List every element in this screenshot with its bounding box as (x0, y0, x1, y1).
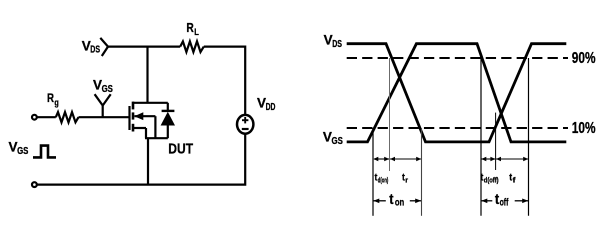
resistor Rg (56, 112, 79, 122)
arrow t_off right (515, 199, 529, 204)
10% dashed level line (347, 127, 568, 129)
transistor DUT (n-MOSFET) (130, 102, 168, 185)
probe VGS (Y symbol) (95, 94, 111, 117)
label VDD (257, 95, 275, 112)
label DUT (168, 140, 193, 157)
label VGS pulse (9, 139, 29, 156)
node marker VDS 10% rise (495, 113, 497, 170)
pulse symbol VGS input (33, 146, 56, 158)
node marker VDS 90% rise (528, 58, 530, 216)
svg-text:R: R (186, 21, 193, 35)
label VGS waveform (323, 129, 343, 146)
wire input to Rg (37, 116, 56, 118)
waveform VDS trace (347, 44, 567, 142)
svg-text:DS: DS (90, 45, 100, 56)
svg-text:90%: 90% (572, 50, 596, 67)
label VDS waveform (324, 32, 343, 49)
probe VDS (sideways Y symbol) (100, 38, 108, 56)
label t_off (495, 191, 509, 209)
waveform VGS trace (347, 44, 567, 142)
arrow t_on left (373, 199, 386, 204)
svg-text:DS: DS (332, 39, 342, 50)
label t_on (389, 191, 404, 209)
node marker VGS 90% fall (480, 58, 482, 216)
wire drain vertical from top node (146, 47, 148, 104)
label tf (509, 173, 516, 185)
arrow t_off left (481, 199, 492, 204)
terminal input (open circle) (32, 115, 37, 120)
label VGS probe (93, 78, 113, 95)
svg-text:r: r (405, 178, 408, 185)
node marker t_on start (VGS 10% rise) (372, 128, 374, 216)
svg-text:DD: DD (266, 102, 276, 113)
label tr (402, 173, 408, 185)
svg-text:d(on): d(on) (378, 178, 389, 185)
svg-text:on: on (395, 196, 404, 208)
wire top: probe to RL (108, 45, 180, 47)
wire RL to VDD corner (204, 47, 245, 116)
svg-text:DUT: DUT (168, 140, 193, 157)
body diode of DUT (161, 103, 175, 138)
node marker VDS 10% fall (421, 128, 423, 216)
label VDS probe (82, 38, 101, 55)
arrow t_on right (410, 199, 421, 204)
svg-text:off: off (500, 196, 509, 208)
node marker VDS 90% fall (389, 58, 391, 171)
arrow td(on) (373, 157, 389, 161)
svg-text:g: g (54, 97, 58, 107)
source VDD (circle with plus minus) (237, 115, 253, 134)
terminal bottom rail (open circle) (32, 182, 37, 187)
svg-text:d(off): d(off) (484, 178, 499, 185)
resistor RL (180, 41, 204, 52)
label td(off) (481, 173, 499, 185)
label 90% (572, 50, 596, 67)
svg-text:10%: 10% (572, 120, 596, 137)
wire VDD to bottom rail (37, 133, 245, 185)
arrow tr (390, 157, 421, 161)
arrow td(off) (481, 157, 495, 161)
svg-text:L: L (194, 27, 199, 37)
arrow tf (496, 157, 528, 161)
wire Rg to gate (79, 116, 129, 118)
label td(on) (375, 173, 389, 185)
svg-text:GS: GS (332, 136, 344, 147)
svg-text:t: t (389, 191, 393, 208)
svg-text:GS: GS (102, 84, 114, 95)
90% dashed level line (347, 57, 568, 59)
label Rg (47, 93, 59, 107)
svg-text:t: t (495, 191, 499, 208)
svg-text:GS: GS (17, 146, 29, 157)
label RL (186, 21, 199, 37)
label 10% (572, 120, 596, 137)
